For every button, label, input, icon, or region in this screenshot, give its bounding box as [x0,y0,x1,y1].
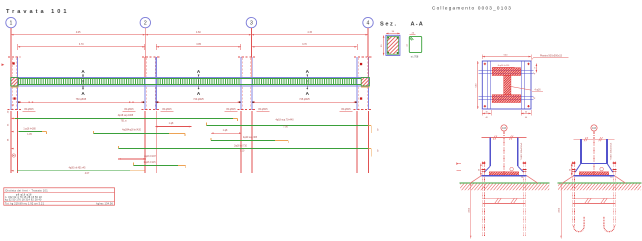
detail A base plate [482,175,527,177]
svg-text:4.07: 4.07 [85,173,90,175]
detail A top beam line [482,137,527,139]
svg-text:740 φ8/25: 740 φ8/25 [193,99,204,101]
svg-text:3: 3 [250,20,253,26]
detail A gussets [484,166,490,172]
anchor marks [484,63,486,65]
section width dim [386,32,400,34]
column 3 rebar below [240,111,242,173]
detail B break lines [573,197,616,199]
detail A anchor bolts lower [482,190,484,236]
plan rebar bottom [492,95,520,103]
svg-text:80 φ8/15: 80 φ8/15 [124,109,134,111]
svg-text:3.70: 3.70 [79,43,84,46]
marker col4 upper [360,63,362,65]
svg-text:3.85: 3.85 [196,43,201,46]
svg-text:TUBO 150x150x5: TUBO 150x150x5 [521,142,523,160]
svg-text:Distinta dei ferri - Travata 1: Distinta dei ferri - Travata 101 [6,190,49,193]
column 4 top cut dashed [354,56,372,58]
column 4 bottom cut dashed [354,108,373,110]
grid line 2 [144,28,146,57]
column 1 top cut dashed [8,56,21,58]
svg-text:30: 30 [479,169,481,171]
svg-text:TUBO 150x150x5: TUBO 150x150x5 [610,142,612,160]
bar 5: 4d18 inf span1-2 [93,131,95,134]
detail A centerline [503,131,505,140]
section cut A [306,75,308,90]
svg-text:(150): (150) [559,208,561,213]
bar 3: 1d8 red [155,126,191,128]
column 2 inner bars dashed [145,58,147,77]
svg-text:7.10: 7.10 [240,151,245,153]
pos bubble [12,154,15,157]
dimension row clear spans [17,44,19,50]
detail B base plate [574,175,615,177]
bar 1: 4d18 sup top span1 [12,117,15,119]
stirrups span 3 [252,79,356,84]
section cut A [82,75,84,90]
plan column flanges vertical [487,61,489,109]
svg-text:4.15: 4.15 [307,31,312,34]
svg-text:1: 1 [10,20,13,26]
svg-text:(150): (150) [468,208,470,213]
grid line 4 [367,28,369,57]
plate level ticks [457,163,461,165]
plan left dim [477,61,479,109]
bar 2: 4d18 sup span2-3 [205,123,207,126]
marker col4 lower [360,97,362,99]
column 2 top cut dashed [142,56,159,58]
svg-text:4: 4 [367,20,370,26]
svg-text:10: 10 [521,177,523,179]
svg-text:1.05: 1.05 [27,134,32,136]
stirrups span 1 [19,79,145,84]
column 2 rebar below [144,111,146,173]
bar 10: 4d20 inf span1 [17,170,130,172]
joint block col4 [361,78,369,86]
svg-text:745 φ8/25: 745 φ8/25 [299,99,310,101]
svg-text:7.00: 7.00 [283,127,288,129]
column 1 inner bars dashed [11,58,13,77]
joint underline orange col1 [11,86,19,88]
svg-text:80 φ8/15: 80 φ8/15 [341,109,351,111]
base plate plan outline [482,61,531,109]
svg-text:4φ18 sup.70+440: 4φ18 sup.70+440 [275,120,294,122]
svg-text:1 φ16 l=115: 1 φ16 l=115 [143,162,156,164]
detail A anchor bolts upper [482,162,484,191]
svg-text:4.60: 4.60 [196,31,201,34]
svg-text:Collegamento 0003_0103: Collegamento 0003_0103 [432,6,512,11]
grid line 1 [10,28,12,57]
column 2 bottom cut dashed [141,108,159,110]
detail A pos bubble [510,167,514,171]
svg-text:Sez.: Sez. [380,22,398,28]
detail B anchor bolts lower [572,190,574,226]
svg-text:Travata 101: Travata 101 [6,9,69,15]
svg-text:4φ18/4φ18 inf.420: 4φ18/4φ18 inf.420 [122,130,142,132]
detail A base plate grout [489,172,519,175]
detail A ground hatch [460,184,549,191]
bar schedule table [4,188,115,205]
dimension row axis-to-axis [10,31,12,39]
joint underline orange col4 [361,86,369,88]
svg-text:kg/mc 134.56: kg/mc 134.56 [96,204,113,206]
detail A column [489,138,491,167]
plan beams horizontal [479,69,534,71]
column 3 inner bars dashed [241,58,243,77]
svg-text:3.70: 3.70 [302,43,307,46]
column 1 rebar below [10,111,12,173]
svg-text:103: 103 [502,127,507,130]
section height dim [383,35,385,55]
section A-A concrete [386,35,400,55]
svg-text:1 φ8: 1 φ8 [169,123,174,125]
marker col1 upper [12,62,14,64]
svg-text:Piastra 500x500x15: Piastra 500x500x15 [540,55,563,58]
column 4 inner bars dashed [357,58,359,77]
svg-text:1 φ16 l=180: 1 φ16 l=180 [23,128,36,130]
column 4 rebar below [356,111,358,173]
svg-text:Tot. kg 219.89 mc 1.92 cm: Tot. kg 219.89 mc 1.92 cm 3.21 [5,203,45,206]
bar 9: 1d16 [132,163,134,166]
grid bubble 1 [6,17,16,27]
bar 8: 2d16 red [118,158,146,160]
section cut A [198,75,200,90]
detail A footing splay [471,176,482,183]
beam top rebar green [18,78,361,80]
svg-text:80 φ8/15: 80 φ8/15 [24,109,34,111]
detail B hook right [604,216,615,231]
bar 7: 2d18 inf long [117,146,119,149]
column 1 [10,57,12,110]
bar 3b: 1d8 red span3 [211,132,242,134]
svg-text:4φ18 sup.1005: 4φ18 sup.1005 [118,115,134,117]
svg-text:2φ16 l=197: 2φ16 l=197 [144,156,156,158]
level mark left edge [2,63,5,66]
svg-text:760 φ8/25: 760 φ8/25 [76,99,87,101]
stirrup shape [409,36,421,52]
right small dim [535,64,537,73]
svg-text:2: 2 [144,20,147,26]
plan leader 4d16 [508,86,532,90]
detail B top beam line [574,138,615,140]
detail B centerline [593,131,595,140]
detail B column [580,139,582,163]
plan rebar middle [504,76,511,95]
beam top chord [11,77,370,79]
joint block col1 [11,78,19,86]
detail B depth dim [560,183,562,238]
stirrup width dim [409,34,415,36]
detail B column base [581,162,607,164]
svg-text:30: 30 [569,169,571,171]
plan top dim [482,56,531,58]
svg-text:4φ20 inf.451+45: 4φ20 inf.451+45 [69,167,86,169]
detail B footing splay [563,176,574,183]
detail A break lines [483,197,526,199]
column 3 bottom cut dashed [237,108,255,110]
grid line 3 [250,28,252,57]
svg-text:A-A: A-A [411,22,425,28]
svg-text:103: 103 [592,127,597,130]
marker col1 lower [13,97,15,99]
beam bottom rebar green [18,84,361,86]
svg-text:1 φ8: 1 φ8 [223,130,228,132]
detail B hook left [574,216,585,231]
bar 4: 1d16 span1 short [19,131,43,133]
column 3 top cut dashed [238,56,255,58]
detail A depth dim [470,183,472,238]
detail B bubble [591,125,597,131]
bar 6: 2d20 sup span3 [210,138,212,141]
plan rebar top [492,68,520,76]
svg-text:4.05: 4.05 [76,31,81,34]
detail B left dims [571,163,573,175]
stirrup dims [18,101,144,103]
beam bottom chord [11,85,370,87]
svg-text:80 φ8/15: 80 φ8/15 [258,109,268,111]
column 2 [144,57,146,110]
grid bubble 4 [363,17,373,27]
detail B base plate grout [579,172,609,175]
svg-text:701.a: 701.a [121,121,127,123]
detail A ground line [460,182,550,184]
detail A bubble [501,125,507,131]
detail B ground hatch [558,184,641,191]
svg-text:80 φ8/15: 80 φ8/15 [162,109,172,111]
column 3 [240,57,242,110]
column 1 bottom cut dashed [8,108,22,110]
svg-text:6 φ16 l=110: 6 φ16 l=110 [498,64,510,67]
svg-text:10: 10 [610,177,612,179]
column 4 [356,57,358,110]
grid bubble 2 [140,17,150,27]
svg-text:s.t.708: s.t.708 [411,56,419,59]
detail B gussets [575,163,581,172]
detail B pos bubble [600,167,604,171]
svg-text:80 φ8/15: 80 φ8/15 [226,109,236,111]
svg-text:2φ20 sup.305: 2φ20 sup.305 [243,137,258,139]
detail B ground line [558,182,642,184]
left bar dim ticks [11,104,14,106]
detail A left dims [480,163,482,175]
svg-text:2φ18 inf.710: 2φ18 inf.710 [234,145,248,147]
grid line continuations [144,57,146,78]
detail B anchor bolts upper [572,162,574,191]
stirrups span 2 [157,79,241,84]
plan bottom dims [481,110,483,115]
grid bubble 3 [246,17,256,27]
